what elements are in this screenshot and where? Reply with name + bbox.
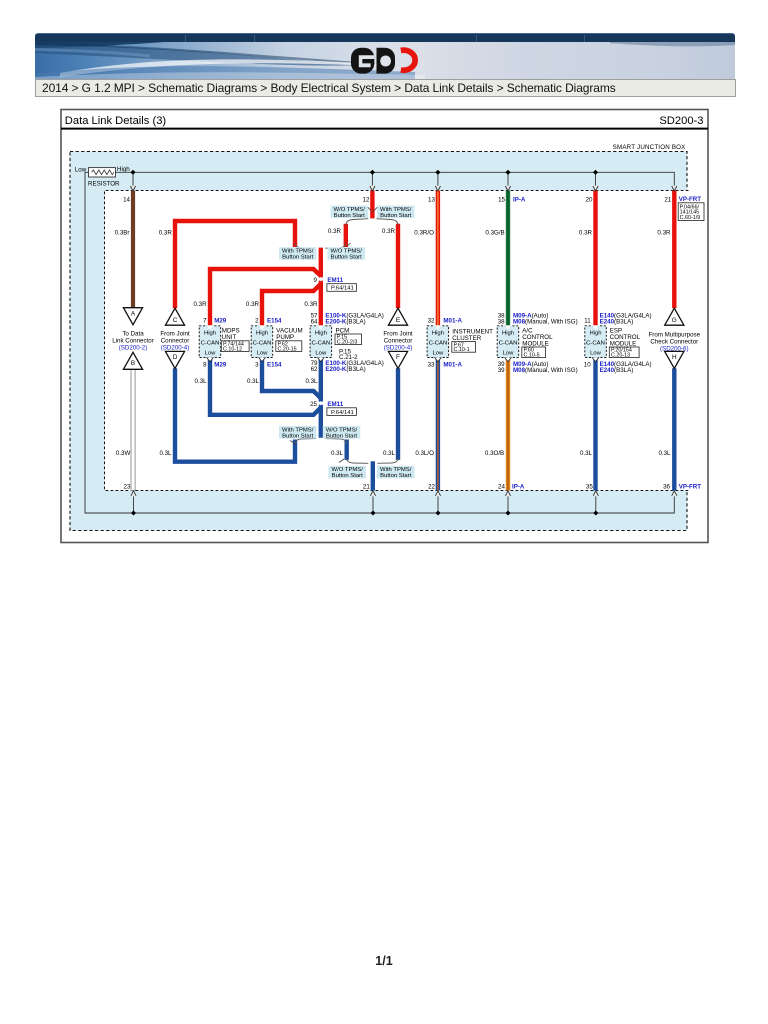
wire 0.3R connector C loop — [175, 221, 295, 308]
svg-text:F: F — [396, 354, 400, 361]
svg-text:0.3Br: 0.3Br — [115, 230, 130, 237]
svg-text:Button Start: Button Start — [282, 255, 313, 261]
PCM pins 57 64 E100-K E200-K — [311, 312, 384, 325]
svg-text:0.3R/O: 0.3R/O — [414, 230, 434, 237]
svg-text:0.3G/B: 0.3G/B — [485, 230, 504, 237]
connector EM11 pin9 symbol — [314, 276, 357, 292]
svg-text:M08(Manual, With ISG): M08(Manual, With ISG) — [513, 367, 578, 374]
svg-text:B: B — [131, 360, 135, 367]
VP-FRT page ref box — [678, 203, 704, 221]
svg-text:0.3R: 0.3R — [382, 228, 396, 235]
CAN low bus wire — [85, 172, 674, 513]
svg-text:C.60-1/9: C.60-1/9 — [680, 215, 701, 221]
svg-text:E200-K(B3LA): E200-K(B3LA) — [325, 319, 365, 326]
ESP pin 10 E140 E240 — [584, 361, 652, 374]
pin exit arrow up x=373 — [370, 491, 375, 496]
svg-text:Low: Low — [315, 350, 327, 356]
label callout w/o tpms (mid right) — [328, 243, 366, 261]
svg-text:CLUSTER: CLUSTER — [452, 335, 481, 342]
component box A/C CONTROL MODULE — [497, 325, 519, 361]
off-page connector A to data link connector — [123, 308, 142, 325]
smart junction box — [70, 144, 687, 531]
svg-text:0.3L: 0.3L — [383, 450, 396, 457]
connector EM11 pin25 symbol — [310, 400, 356, 416]
svg-text:0.3L: 0.3L — [247, 378, 260, 385]
CAN high bus wire — [116, 172, 675, 185]
wire drop pin 13 — [437, 172, 439, 185]
VACUUM PUMP name and page ref — [276, 327, 303, 352]
svg-text:E240(B3LA): E240(B3LA) — [600, 367, 634, 374]
svg-text:D: D — [173, 354, 178, 361]
component box PCM — [310, 325, 332, 361]
wire 0.3R branch with tpms to connector E — [396, 224, 400, 308]
off-page connector D from joint connector — [165, 351, 184, 368]
svg-text:0.3L/O: 0.3L/O — [415, 450, 434, 457]
svg-text:0.3R: 0.3R — [328, 228, 342, 235]
wire 0.3L branch w/o tpms lower — [345, 440, 349, 460]
pin entry arrow down x=674.3 — [672, 186, 677, 191]
svg-text:C: C — [173, 317, 178, 324]
INSTRUMENT CLUSTER name and page ref — [452, 328, 493, 353]
brace split at pin12 — [346, 219, 398, 226]
svg-text:EM11: EM11 — [327, 401, 343, 408]
pin entry arrow down x=133 — [130, 186, 135, 191]
page frame box — [61, 110, 708, 543]
svg-text:From Joint: From Joint — [383, 330, 413, 337]
off-page connector B to data link connector — [123, 352, 142, 369]
svg-text:0.3R: 0.3R — [657, 230, 671, 237]
svg-text:RESISTOR: RESISTOR — [88, 181, 120, 188]
wire rise pin 35 — [595, 496, 597, 513]
svg-text:From Joint: From Joint — [160, 330, 190, 337]
node label from joint connector EF — [383, 330, 413, 351]
svg-text:20: 20 — [586, 197, 593, 204]
svg-text:Button Start: Button Start — [334, 213, 365, 219]
label callout w/o tpms (top row left) — [331, 206, 373, 219]
PCM pins 79 62 E100-K E200-K — [311, 360, 384, 373]
svg-text:Button Start: Button Start — [282, 433, 313, 439]
svg-text:C.20-13: C.20-13 — [611, 353, 630, 359]
svg-text:PUMP: PUMP — [276, 334, 294, 341]
svg-text:0.3L: 0.3L — [305, 378, 318, 385]
svg-text:VP-FRT: VP-FRT — [679, 483, 702, 490]
svg-text:(SD200-4): (SD200-4) — [161, 344, 190, 351]
svg-text:M29: M29 — [214, 361, 227, 368]
svg-text:3: 3 — [255, 361, 259, 368]
page number — [0, 954, 768, 968]
node label from multipurpose check connector — [649, 331, 701, 352]
svg-text:Button Start: Button Start — [332, 473, 363, 479]
svg-text:High: High — [502, 331, 514, 337]
svg-text:15: 15 — [498, 197, 505, 204]
svg-text:Button Start: Button Start — [331, 255, 362, 261]
PCM name and page refs — [335, 327, 362, 361]
svg-text:0.3R: 0.3R — [159, 230, 173, 237]
wire 0.3R pin21 to connector G — [672, 191, 676, 309]
svg-text:25: 25 — [310, 401, 317, 408]
component area box — [105, 191, 689, 491]
svg-text:Button Start: Button Start — [326, 433, 357, 439]
wire 0.3L to pin21 bottom — [371, 461, 375, 490]
svg-text:0.3W: 0.3W — [116, 450, 131, 457]
svg-text:E154: E154 — [267, 318, 282, 325]
svg-text:From Multipurpose: From Multipurpose — [649, 331, 701, 338]
svg-text:MODULE: MODULE — [610, 340, 636, 347]
svg-text:2: 2 — [255, 318, 259, 325]
svg-text:(SD200-2): (SD200-2) — [119, 344, 148, 351]
wire 0.3W connector B to pin23 — [131, 369, 135, 491]
wire 0.3L esp module to pin35 — [593, 357, 597, 490]
wire 0.3L connector H to pin36 — [672, 368, 676, 490]
svg-text:39: 39 — [498, 367, 505, 374]
svg-text:32: 32 — [428, 318, 435, 325]
svg-text:C.10-1: C.10-1 — [454, 347, 470, 353]
label callout with tpms (lower left) — [279, 426, 317, 444]
svg-text:M01-A: M01-A — [443, 361, 462, 368]
wire 0.3G/B pin15 to a/c module — [506, 191, 510, 326]
svg-text:To Data: To Data — [122, 330, 144, 337]
svg-text:0.3L: 0.3L — [195, 378, 208, 385]
svg-text:High: High — [256, 331, 268, 337]
wire rise pin 22 — [437, 496, 439, 513]
GDS logo — [350, 47, 420, 75]
label callout with tpms (top row right) — [373, 206, 415, 219]
wire 0.3L PCM pin79 to EM11 — [319, 357, 323, 437]
svg-text:E240(B3LA): E240(B3LA) — [600, 319, 634, 326]
wire rise pin 24 — [507, 496, 509, 513]
svg-text:9: 9 — [314, 277, 318, 284]
svg-text:P.64/141: P.64/141 — [331, 286, 354, 292]
svg-text:38: 38 — [498, 319, 505, 326]
svg-text:Check Connector: Check Connector — [650, 338, 698, 345]
svg-text:24: 24 — [498, 483, 505, 490]
svg-text:High: High — [117, 166, 130, 173]
svg-text:Low: Low — [432, 350, 444, 356]
svg-text:G: G — [672, 317, 677, 324]
svg-text:C-CAN: C-CAN — [253, 341, 272, 347]
junction dot — [435, 510, 440, 515]
svg-text:0.3O/B: 0.3O/B — [485, 450, 504, 457]
svg-text:High: High — [204, 331, 216, 337]
svg-text:Connector: Connector — [384, 337, 413, 344]
component box MDPS UNIT M29 — [199, 325, 221, 361]
component box VACUUM PUMP E154 — [251, 325, 273, 361]
wire 0.3L connector F branch — [396, 368, 400, 460]
off-page connector C from joint connector — [165, 308, 184, 325]
svg-text:64: 64 — [311, 319, 318, 326]
wire 0.3R/O pin13 to instrument cluster — [436, 191, 440, 326]
component box ESP CONTROL MODULE — [585, 325, 607, 361]
svg-text:12: 12 — [363, 197, 370, 204]
svg-text:SMART JUNCTION BOX: SMART JUNCTION BOX — [613, 144, 686, 151]
svg-text:21: 21 — [363, 483, 370, 490]
svg-text:M29: M29 — [214, 318, 227, 325]
svg-text:33: 33 — [428, 361, 435, 368]
svg-text:36: 36 — [663, 483, 670, 490]
wire 0.3Br pin14 to connector A — [131, 191, 135, 308]
svg-text:IP-A: IP-A — [513, 197, 526, 204]
pin exit arrow up x=674.3 — [672, 491, 677, 496]
pin exit arrow up x=438 — [435, 491, 440, 496]
svg-text:21: 21 — [664, 197, 671, 204]
label callout w/o tpms (bottom row left) — [329, 459, 367, 479]
svg-text:(SD200-4): (SD200-4) — [384, 344, 413, 351]
wire drop pin 14 — [132, 172, 134, 185]
svg-text:0.3R: 0.3R — [304, 301, 318, 308]
label callout with tpms (mid left) — [279, 247, 317, 260]
svg-text:C-CAN: C-CAN — [311, 341, 330, 347]
svg-text:22: 22 — [428, 483, 435, 490]
svg-text:P.64/141: P.64/141 — [331, 410, 354, 416]
wire drop pin 15 — [507, 172, 509, 185]
wire 0.3R vacuum pump pin2 — [262, 284, 321, 326]
pin entry arrow down x=437.9 — [435, 186, 440, 191]
label callout with tpms (bottom row right) — [377, 466, 415, 479]
svg-text:0.3R: 0.3R — [579, 230, 593, 237]
header bar — [35, 33, 735, 97]
A/C pins 39 39 M09-A M08 — [498, 361, 578, 374]
junction dot — [593, 170, 598, 175]
svg-text:Low: Low — [590, 350, 602, 356]
svg-text:Link Connector: Link Connector — [112, 337, 154, 344]
svg-text:M08(Manual, With ISG): M08(Manual, With ISG) — [513, 319, 578, 326]
pin entry arrow down x=508 — [505, 186, 510, 191]
svg-text:13: 13 — [428, 197, 435, 204]
svg-text:0.3R: 0.3R — [194, 301, 208, 308]
svg-text:Low: Low — [205, 350, 217, 356]
svg-text:EM11: EM11 — [327, 277, 343, 284]
svg-text:Data Link Details (3): Data Link Details (3) — [65, 115, 167, 127]
wire rise pin 21b — [372, 496, 374, 513]
A/C CONTROL MODULE name and page ref — [522, 327, 553, 358]
wire rise pin 23 — [133, 496, 135, 513]
svg-text:11: 11 — [584, 318, 591, 325]
brace merge at pin21 bottom — [347, 458, 398, 463]
svg-text:UNIT: UNIT — [222, 334, 237, 341]
svg-text:MODULE: MODULE — [522, 340, 548, 347]
junction dot — [131, 510, 136, 515]
svg-text:8: 8 — [203, 361, 207, 368]
svg-text:C-CAN: C-CAN — [586, 341, 605, 347]
svg-text:0.3L: 0.3L — [331, 450, 344, 457]
svg-text:IP-A: IP-A — [512, 483, 525, 490]
wire drop pin 12 — [371, 172, 373, 185]
component box INSTRUMENT CLUSTER M01-A — [427, 325, 449, 361]
svg-text:7: 7 — [203, 318, 207, 325]
svg-text:A: A — [131, 311, 136, 318]
svg-text:(SD200-6): (SD200-6) — [660, 345, 689, 352]
svg-text:14: 14 — [123, 197, 130, 204]
brace merge into EM11 top — [295, 243, 346, 249]
brace split below EM11 bottom — [295, 439, 347, 445]
wire 0.3R pin20 to esp module — [593, 191, 597, 326]
svg-text:Low: Low — [503, 350, 515, 356]
svg-text:C.10-5: C.10-5 — [524, 353, 540, 359]
junction dot — [505, 170, 510, 175]
svg-text:23: 23 — [124, 483, 131, 490]
wire 0.3R EM11 to PCM pin 57 — [319, 248, 323, 326]
A/C pins 38 38 M09-A M08 — [498, 312, 578, 325]
junction dot — [593, 510, 598, 515]
junction dot — [130, 170, 135, 175]
wire 0.3R branch w/o tpms — [344, 224, 348, 247]
svg-text:E200-K(B3LA): E200-K(B3LA) — [325, 366, 365, 373]
svg-text:C.20-15: C.20-15 — [278, 346, 297, 352]
svg-text:E: E — [396, 317, 400, 324]
wire 0.3L connector D loop — [175, 368, 295, 461]
wire 0.3L vacuum pump pin3 — [262, 357, 321, 398]
node label from joint connector CD — [160, 330, 190, 351]
svg-text:Button Start: Button Start — [380, 213, 411, 219]
wire 0.3L/O instrument cluster to pin22 — [436, 357, 440, 490]
label callout w/o tpms (lower right) — [323, 426, 361, 439]
junction dot — [370, 510, 375, 515]
wire 0.3R MDPS pin7 — [210, 269, 321, 326]
svg-text:High: High — [589, 331, 601, 337]
svg-text:0.3L: 0.3L — [658, 450, 671, 457]
svg-text:PCM: PCM — [336, 327, 350, 334]
svg-text:10: 10 — [584, 361, 591, 368]
off-page connector E from joint connector — [388, 308, 407, 325]
ESP CONTROL MODULE name and page ref — [609, 327, 640, 358]
svg-text:C-CAN: C-CAN — [201, 341, 220, 347]
svg-text:M01-A: M01-A — [443, 318, 462, 325]
svg-text:SD200-3: SD200-3 — [659, 115, 703, 127]
off-page connector G from multipurpose check connector — [665, 308, 684, 325]
svg-text:H: H — [672, 354, 677, 361]
svg-text:35: 35 — [586, 483, 593, 490]
wire 0.3O/B a/c module to pin24 — [506, 357, 510, 490]
pin exit arrow up x=508 — [505, 491, 510, 496]
svg-text:Button Start: Button Start — [380, 473, 411, 479]
resistor — [75, 166, 130, 188]
svg-text:High: High — [315, 331, 327, 337]
svg-text:High: High — [432, 331, 444, 337]
ESP pin 11 E140 E240 — [584, 312, 651, 325]
svg-text:0.3R: 0.3R — [246, 301, 260, 308]
svg-text:E154: E154 — [267, 361, 282, 368]
wire 0.3L MDPS pin8 — [210, 357, 321, 414]
svg-text:C-CAN: C-CAN — [499, 341, 518, 347]
svg-text:Low: Low — [257, 350, 269, 356]
off-page connector H from multipurpose check connector — [665, 351, 684, 368]
svg-text:C.10-12: C.10-12 — [223, 346, 242, 352]
svg-text:62: 62 — [311, 366, 318, 373]
off-page connector F from joint connector — [388, 351, 407, 368]
wire 0.3R pin12 — [370, 191, 374, 219]
wire drop pin 20 — [595, 172, 597, 185]
pin entry arrow down x=372.4 — [370, 186, 375, 191]
junction dot — [370, 170, 375, 175]
pin exit arrow up x=595.8 — [593, 491, 598, 496]
junction dot — [505, 510, 510, 515]
pin entry arrow down x=595.5 — [593, 186, 598, 191]
MDPS UNIT name and page ref — [221, 327, 249, 352]
svg-text:C-CAN: C-CAN — [429, 341, 448, 347]
pin exit arrow up x=133.5 — [131, 491, 136, 496]
junction dot — [435, 170, 440, 175]
svg-text:0.3L: 0.3L — [580, 450, 593, 457]
svg-text:0.3L: 0.3L — [159, 450, 172, 457]
svg-text:VP-FRT: VP-FRT — [679, 196, 702, 203]
svg-text:Connector: Connector — [161, 337, 190, 344]
svg-text:C.20-2/3: C.20-2/3 — [337, 340, 358, 346]
node label to data link connector — [112, 330, 154, 351]
